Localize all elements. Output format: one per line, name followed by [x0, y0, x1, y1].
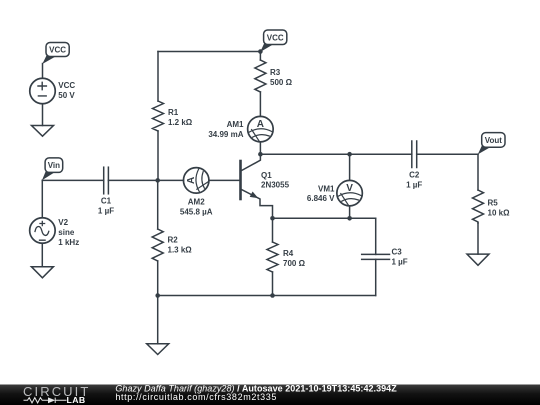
wire R3 top lead: [259, 52, 261, 61]
wire VCC flag stub to source V1 top: [42, 64, 44, 79]
svg-text:VCC: VCC: [58, 81, 75, 90]
svg-text:1 µF: 1 µF: [392, 258, 408, 267]
svg-text:Vout: Vout: [485, 136, 503, 145]
resistor R1: [153, 101, 164, 131]
svg-text:C1: C1: [101, 197, 112, 206]
svg-text:50 V: 50 V: [58, 91, 75, 100]
junction node VM1 top: [347, 152, 352, 157]
source V1 plus minus: [38, 82, 46, 96]
junction node emitter R4: [270, 216, 275, 221]
wire C2 to Vout corner: [417, 153, 478, 155]
wire C3 bottom lead: [375, 259, 377, 295]
svg-text:LAB: LAB: [67, 395, 86, 405]
resistor R2: [152, 229, 163, 261]
svg-text:1 µF: 1 µF: [98, 207, 114, 216]
wire V2 bottom to ground: [41, 243, 43, 267]
ground bottom center: [147, 344, 169, 355]
wire AM2 to Q1 base: [209, 179, 239, 181]
ammeter AM1 meter face: [249, 129, 272, 141]
svg-text:V2: V2: [58, 218, 68, 227]
wire top rail R1 to R3: [158, 51, 260, 53]
wire VM1 bottom stub: [349, 206, 351, 219]
svg-text:R3: R3: [270, 68, 281, 77]
svg-text:6.846 V: 6.846 V: [307, 194, 335, 203]
label R5: [488, 199, 511, 218]
svg-text:1 kHz: 1 kHz: [58, 238, 79, 247]
label AM2: [180, 198, 213, 217]
junction node base rail R1 R2: [155, 178, 160, 183]
wire bottom rail: [158, 295, 376, 297]
wire source V1 bottom to ground: [42, 104, 44, 126]
svg-text:500 Ω: 500 Ω: [270, 78, 293, 87]
label V1 name value: [58, 81, 75, 100]
wire R3 to AM1: [259, 92, 261, 116]
node flag VCC top-left: [42, 43, 69, 65]
wire bottom junction to ground: [157, 296, 159, 344]
wire C1 to AM2: [108, 179, 183, 181]
svg-text:C3: C3: [392, 248, 403, 257]
voltmeter VM1 meter face: [338, 193, 361, 205]
transistor Q1 emitter: [242, 190, 273, 219]
wire R1 bottom lead: [157, 131, 159, 180]
label VM1: [307, 185, 335, 204]
svg-text:R4: R4: [283, 249, 294, 258]
label R4: [283, 249, 306, 268]
wire R4 top lead: [272, 218, 274, 242]
transistor Q1 base bar: [239, 161, 242, 199]
svg-text:AM1: AM1: [227, 120, 244, 129]
svg-text:A: A: [257, 119, 264, 130]
wire R2 bottom lead: [157, 261, 159, 296]
svg-text:sine: sine: [58, 228, 75, 237]
svg-text:http://circuitlab.com/cfrs382m: http://circuitlab.com/cfrs382m2t335: [115, 392, 277, 402]
capacitor C3: [362, 254, 390, 259]
junction node R4 bottom: [270, 293, 275, 298]
wire base rail Vin to C1: [42, 179, 103, 181]
logo diode triangle: [48, 397, 55, 403]
source V2 circle: [30, 218, 56, 244]
label V2 name value: [58, 218, 79, 247]
svg-text:Q1: Q1: [261, 171, 272, 180]
svg-text:1.2 kΩ: 1.2 kΩ: [168, 118, 193, 127]
svg-text:1.3 kΩ: 1.3 kΩ: [168, 246, 193, 255]
label R1: [168, 108, 193, 127]
logo resistor diode squiggle: [24, 398, 67, 403]
footer bar: [0, 385, 540, 405]
wire C3 top lead: [375, 218, 377, 254]
svg-text:AM2: AM2: [188, 198, 205, 207]
source V1 VCC circle: [30, 78, 56, 104]
ground below source V1: [32, 126, 54, 137]
svg-text:VCC: VCC: [49, 46, 66, 55]
label C1: [98, 197, 114, 216]
svg-text:C2: C2: [409, 171, 420, 180]
svg-text:A: A: [186, 177, 197, 184]
capacitor C1: [104, 167, 109, 194]
wire R1 top lead: [157, 52, 159, 102]
svg-text:700 Ω: 700 Ω: [283, 259, 306, 268]
junction node bottom left: [155, 293, 160, 298]
junction node VM1 bottom: [347, 216, 352, 221]
wire emitter rail to C3 branch: [273, 217, 376, 219]
label AM1: [208, 120, 244, 139]
svg-text:Vin: Vin: [48, 161, 60, 170]
label Q1: [261, 171, 290, 190]
svg-text:34.99 mA: 34.99 mA: [208, 130, 243, 139]
transistor Q1 collector: [242, 154, 261, 170]
wire R2 top lead: [157, 180, 159, 229]
source V2 sine and polarity: [35, 221, 49, 240]
svg-text:545.8 µA: 545.8 µA: [180, 207, 213, 216]
svg-text:1 µF: 1 µF: [406, 181, 422, 190]
wire VM1 top stub: [349, 154, 351, 180]
label R2: [168, 236, 193, 255]
node flag Vin: [42, 158, 63, 180]
resistor R5: [473, 190, 484, 223]
label C2: [406, 171, 422, 190]
svg-text:R2: R2: [168, 236, 179, 245]
transistor Q1 emitter arrow: [250, 192, 259, 199]
svg-text:VM1: VM1: [318, 185, 335, 194]
svg-text:R1: R1: [168, 108, 179, 117]
svg-text:VCC: VCC: [267, 33, 284, 42]
junction node R1-R3 rail VCC: [258, 49, 263, 54]
junction node collector rail: [258, 152, 263, 157]
ammeter AM2 circle: [183, 168, 209, 194]
ammeter AM2 meter face rotated: [196, 169, 208, 192]
capacitor C2: [412, 141, 417, 168]
wire Vout corner down to R5: [477, 154, 479, 190]
svg-text:V: V: [346, 183, 353, 194]
node flag Vout: [478, 133, 505, 155]
svg-text:R5: R5: [488, 199, 499, 208]
wire R4 bottom lead: [272, 272, 274, 296]
svg-text:2N3055: 2N3055: [261, 181, 290, 190]
node flag VCC above R3: [260, 30, 287, 52]
wire mid rail to C2: [260, 153, 411, 155]
voltmeter VM1 circle: [337, 180, 363, 206]
ground below source V2: [31, 267, 53, 278]
wire R5 bottom to ground: [477, 223, 479, 254]
ground below R5: [467, 254, 489, 265]
resistor R3: [255, 60, 266, 92]
svg-text:10 kΩ: 10 kΩ: [488, 209, 511, 218]
label R3: [270, 68, 293, 87]
wire Vin corner down to V2: [41, 180, 43, 217]
ammeter AM1 circle: [248, 116, 274, 142]
resistor R4: [267, 242, 278, 272]
label C3: [392, 248, 408, 267]
wire AM1 to collector junction: [259, 142, 261, 154]
